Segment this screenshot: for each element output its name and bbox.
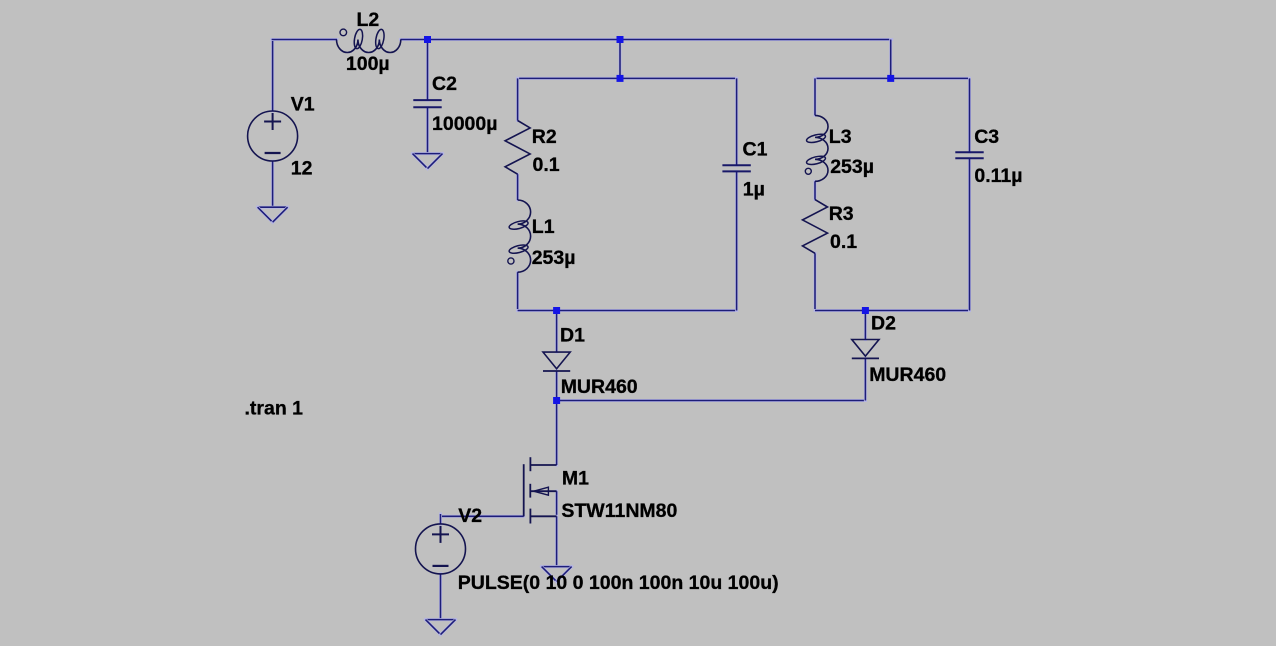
svg-text:12: 12 (291, 158, 313, 180)
svg-text:0.11µ: 0.11µ (974, 165, 1022, 187)
svg-text:R3: R3 (829, 203, 854, 225)
svg-text:MUR460: MUR460 (561, 376, 638, 398)
svg-text:STW11NM80: STW11NM80 (561, 500, 677, 522)
svg-text:.tran 1: .tran 1 (245, 397, 304, 419)
svg-text:10000µ: 10000µ (432, 113, 497, 135)
svg-text:0.1: 0.1 (830, 231, 857, 253)
svg-text:V2: V2 (458, 505, 482, 527)
svg-text:C3: C3 (974, 126, 999, 148)
svg-text:L3: L3 (829, 126, 852, 148)
svg-text:D1: D1 (560, 325, 585, 347)
svg-text:253µ: 253µ (532, 247, 576, 269)
svg-text:PULSE(0 10 0 100n 100n 10u 100: PULSE(0 10 0 100n 100n 10u 100u) (458, 572, 779, 594)
svg-text:C1: C1 (743, 139, 768, 161)
svg-text:M1: M1 (562, 467, 589, 489)
svg-text:L2: L2 (357, 9, 380, 31)
svg-text:1µ: 1µ (743, 178, 765, 200)
svg-text:L1: L1 (532, 216, 555, 238)
svg-text:253µ: 253µ (830, 156, 874, 178)
svg-text:R2: R2 (532, 126, 557, 148)
svg-text:MUR460: MUR460 (869, 364, 946, 386)
svg-text:0.1: 0.1 (533, 154, 560, 176)
svg-text:100µ: 100µ (346, 53, 390, 75)
svg-text:V1: V1 (291, 94, 315, 116)
svg-text:C2: C2 (432, 73, 457, 95)
svg-text:D2: D2 (871, 313, 896, 335)
